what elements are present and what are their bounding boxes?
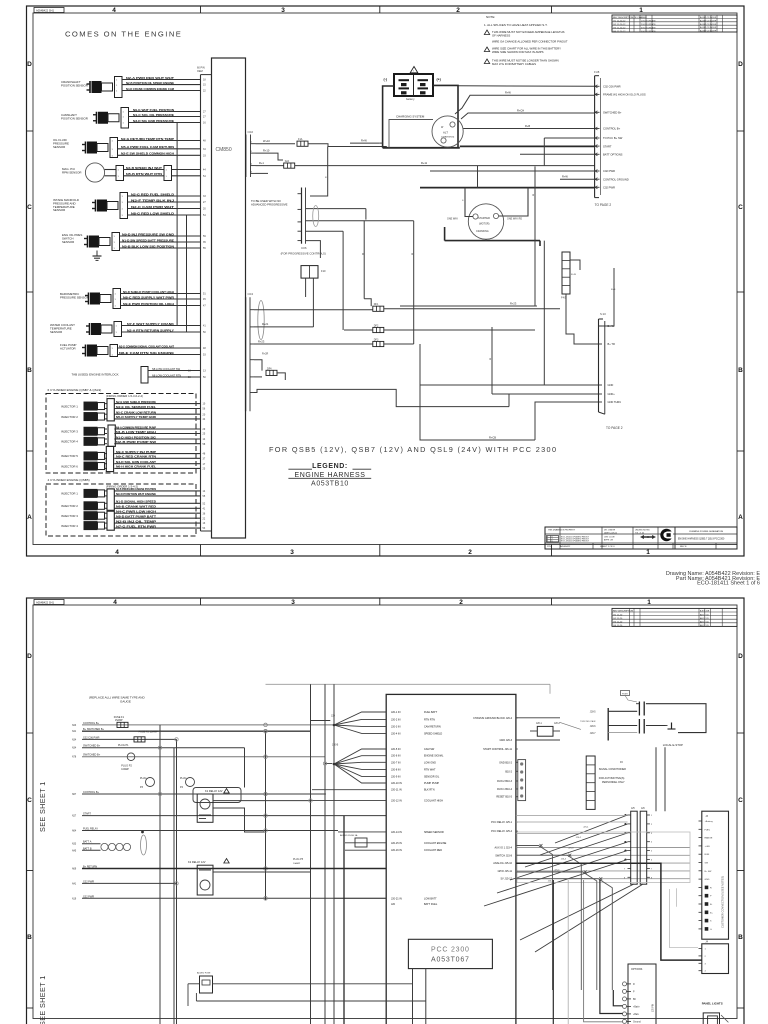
svg-text:R: R (412, 253, 414, 256)
svg-text:(FIRING ORDER 1-5-3-6-2-4): (FIRING ORDER 1-5-3-6-2-4) (106, 394, 143, 398)
svg-text:C04: C04 (248, 292, 254, 296)
wire oil fluid pin 1 (118, 140, 201, 142)
svg-text:AB 12 CD: AB 12 CD (700, 624, 709, 627)
wire fuel pump pin 1 (118, 347, 201, 349)
svg-text:BATT OPTIONS: BATT OPTIONS (603, 153, 623, 157)
svg-text:3: 3 (281, 7, 285, 14)
feeder wires down (534, 166, 536, 306)
svg-text:(CHARGING): (CHARGING) (441, 135, 455, 138)
svg-text:AB 12 CD: AB 12 CD (700, 613, 709, 616)
left bottom fuse box (200, 976, 213, 993)
svg-text:N5-B RTN WHT RTN: N5-B RTN WHT RTN (126, 172, 163, 176)
svg-text:R+W: R+W (505, 91, 511, 95)
svg-text:(FOR PROGRESSIVE CONTROLS): (FOR PROGRESSIVE CONTROLS) (281, 252, 326, 256)
wire crankshaft pin 1 (122, 79, 201, 81)
svg-text:E3 11-20: E3 11-20 (614, 622, 623, 624)
svg-text:A053T067: A053T067 (431, 957, 470, 964)
svg-text:INJECTOR 5: INJECTOR 5 (61, 454, 78, 458)
diagonal fan wires to J25/J26 (555, 815, 628, 843)
svg-text:3: 3 (290, 549, 294, 556)
svg-text:3: 3 (291, 599, 295, 606)
bus pin c02 c06 pwr (595, 85, 600, 87)
starter ground wire (445, 240, 540, 242)
svg-text:1: 1 (639, 7, 643, 14)
push label (621, 691, 630, 696)
svg-text:N5-C CRANK LOW RETURN: N5-C CRANK LOW RETURN (116, 411, 157, 415)
svg-text:N2-E GND SHIELD PRESSURE: N2-E GND SHIELD PRESSURE (116, 400, 156, 404)
svg-text:4 CYLINDER ENGINE (QSB5): 4 CYLINDER ENGINE (QSB5) (48, 478, 90, 482)
alternator (432, 116, 463, 147)
wire injector 4 return (105, 527, 108, 529)
svg-text:SENSOR: SENSOR (53, 145, 65, 149)
svg-text:GND J26-3: GND J26-3 (499, 739, 512, 742)
svg-text:PRESSURE SENSOR: PRESSURE SENSOR (60, 295, 89, 299)
svg-text:ENGINE HARNESS: ENGINE HARNESS (294, 472, 365, 479)
svg-text:J20: J20 (331, 715, 336, 718)
svg-text:TO PAGE 2: TO PAGE 2 (606, 426, 623, 430)
svg-text:N2-B PWR PUMP SW: N2-B PWR PUMP SW (116, 440, 156, 444)
svg-text:J35 PIN: J35 PIN (653, 1003, 655, 1012)
battery positive wire (433, 85, 458, 147)
wire injector 1 supply (105, 403, 108, 405)
svg-text:A1 B2 C3 D4 EF: A1 B2 C3 D4 EF (700, 16, 717, 19)
twin connector bars J25 J26 (631, 811, 638, 884)
svg-text:N2-G RETURN TEMP RTN TEMP: N2-G RETURN TEMP RTN TEMP (121, 137, 174, 141)
riser to C06 pin1 (310, 147, 328, 197)
e-stop switch 1 (638, 702, 640, 716)
svg-text:PLUG P2: PLUG P2 (121, 765, 132, 768)
svg-text:C: C (738, 204, 743, 211)
svg-text:REV E: REV E (680, 546, 687, 548)
wire C02-1 with fuse (256, 143, 296, 145)
svg-text:ADDED FUSE 5A: ADDED FUSE 5A (340, 834, 358, 837)
svg-text:AUX IO 1 J15-4: AUX IO 1 J15-4 (494, 847, 512, 850)
options block (628, 964, 656, 1024)
svg-text:N9-G WHT FUEL POSITION: N9-G WHT FUEL POSITION (133, 108, 175, 112)
bus pin switched b+ (595, 111, 600, 113)
wire injector 6 supply (105, 463, 108, 465)
svg-text:N9-A COMMON PRESSURE PUMP: N9-A COMMON PRESSURE PUMP (116, 425, 156, 429)
svg-text:B: B (738, 934, 743, 941)
svg-text:TO PCC B+ SW: TO PCC B+ SW (603, 136, 623, 140)
wire water coolant pin 2 (122, 331, 201, 333)
terminating resistor J28 (537, 726, 553, 736)
bus pin c02 pwr (595, 186, 600, 188)
svg-text:N27: N27 (72, 816, 77, 818)
wire injector 3 return (105, 517, 108, 519)
svg-text:A1 B2 C3 D4 EF: A1 B2 C3 D4 EF (700, 19, 717, 22)
page2 central PCC block (386, 694, 516, 1024)
svg-text:R+23: R+23 (258, 339, 265, 343)
customer connections block (702, 811, 729, 939)
svg-text:START: START (603, 144, 612, 148)
svg-text:ECO-181411 Sheet 1 of 6: ECO-181411 Sheet 1 of 6 (697, 581, 760, 587)
svg-text:N3-D SIG GND PRESSURE: N3-D SIG GND PRESSURE (133, 119, 174, 123)
wire injector 2 return (105, 507, 108, 509)
hookup bubbles on bus (264, 723, 268, 727)
svg-text:N9-D POSITION WHT ENGINE: N9-D POSITION WHT ENGINE (116, 492, 156, 496)
svg-text:N1-D HIGH POSITION SIG: N1-D HIGH POSITION SIG (116, 435, 157, 439)
arrow to resistor (560, 722, 581, 729)
svg-text:N2-C CAM PWR WHT: N2-C CAM PWR WHT (131, 205, 174, 209)
svg-text:2: 2 (456, 7, 460, 14)
svg-text:RUN 2 B10-3: RUN 2 B10-3 (497, 780, 512, 783)
svg-text:J28-5: J28-5 (590, 712, 596, 714)
svg-text:R+B: R+B (611, 289, 616, 291)
svg-text:R+CH: R+CH (517, 108, 524, 112)
svg-text:PLUG: PLUG (180, 777, 187, 780)
svg-text:DF2: DF2 (374, 324, 379, 327)
svg-text:Ground: Ground (633, 1020, 641, 1023)
svg-text:R: R (533, 194, 535, 197)
wire C04-6 long bottom (254, 389, 509, 406)
wire injector 3 return (105, 433, 108, 435)
border frame (27, 6, 745, 556)
wire C02-2 (256, 153, 284, 160)
svg-text:J26-4: J26-4 (561, 859, 567, 861)
svg-text:DF1: DF1 (374, 303, 379, 306)
svg-text:1 ECO UPDATE: 1 ECO UPDATE (641, 20, 656, 23)
svg-text:E3 11-20-12: E3 11-20-12 (614, 27, 627, 29)
svg-text:N2-B POSITION OIL SPEED ENGINE: N2-B POSITION OIL SPEED ENGINE (126, 81, 174, 85)
wire C04-2 (254, 326, 313, 328)
svg-text:CRANKING: CRANKING (476, 230, 489, 233)
svg-text:POSITION SENSOR: POSITION SENSOR (61, 83, 88, 87)
wires C06 (306, 208, 366, 210)
e-stop bus bar (607, 708, 609, 741)
svg-text:INJECTOR 1: INJECTOR 1 (61, 492, 78, 496)
starter motor (468, 204, 503, 239)
svg-text:WIRE SIZE SHOWN FOR MAX IN AMP: WIRE SIZE SHOWN FOR MAX IN AMPS (492, 50, 544, 54)
svg-text:APPR: JW: APPR: JW (604, 539, 613, 542)
vertical feeders (363, 221, 365, 299)
wire eng oil pres pin 1 (120, 235, 201, 237)
svg-text:INJECTOR 6: INJECTOR 6 (61, 464, 78, 468)
wire C04-3 (254, 343, 300, 345)
connector C06 (301, 188, 303, 244)
svg-text:N6-D SHIELD PUMP COOLANT HIGH: N6-D SHIELD PUMP COOLANT HIGH (123, 290, 175, 294)
svg-text:W+10: W+10 (263, 139, 270, 143)
svg-text:4: 4 (113, 599, 117, 606)
svg-text:J28-7: J28-7 (590, 733, 596, 735)
svg-text:STARTER: STARTER (478, 216, 490, 220)
wire crankshaft pin 2 (122, 84, 201, 86)
svg-text:A054B422 SH1: A054B422 SH1 (36, 8, 54, 12)
svg-text:OPTIONS: OPTIONS (631, 968, 643, 971)
wires from estop down (655, 747, 657, 811)
svg-text:C02 PWR: C02 PWR (603, 186, 615, 190)
battery negative wire (383, 86, 394, 148)
svg-text:SENSOR: SENSOR (62, 240, 74, 244)
svg-text:F2A: F2A (285, 160, 290, 163)
svg-text:N8-C RED SUPPLY WHT PWR: N8-C RED SUPPLY WHT PWR (123, 295, 175, 299)
svg-text:B+ W: B+ W (608, 324, 615, 328)
wire injector 1 return (105, 495, 108, 497)
svg-text:N64: N64 (72, 831, 77, 833)
svg-text:ADDED FUSE: ADDED FUSE (197, 972, 211, 975)
svg-text:B-: B- (710, 904, 712, 906)
fuse F2 (134, 737, 145, 742)
svg-text:PLUG P1: PLUG P1 (118, 744, 129, 747)
svg-text:D: D (738, 61, 743, 68)
svg-text:1: 1 (647, 599, 651, 606)
svg-text:4: 4 (115, 549, 119, 556)
svg-text:ALT: ALT (443, 131, 448, 135)
svg-text:(MOTOR): (MOTOR) (479, 223, 490, 226)
svg-text:N8 LOW COOLANT SW: N8 LOW COOLANT SW (152, 367, 181, 371)
wire camshaft pin 1 (129, 111, 201, 113)
wire to S10 row2 (400, 305, 535, 307)
svg-text:+Battery: +Battery (705, 820, 714, 823)
wire intake manifold pin 1 (128, 195, 201, 197)
svg-text:N9-C RED CRANK RTN: N9-C RED CRANK RTN (116, 455, 157, 459)
wire injector 4 supply (105, 522, 108, 524)
bus pin control b+ (595, 128, 600, 130)
svg-text:N19: N19 (72, 898, 77, 900)
wire intake manifold pin 2 (128, 201, 201, 203)
plug P3 (146, 778, 155, 787)
svg-text:6 CYLINDER ENGINE (QSB7 & QSL9: 6 CYLINDER ENGINE (QSB7 & QSL9) (48, 388, 102, 392)
svg-text:N8-D BATT PUMP BATT: N8-D BATT PUMP BATT (116, 515, 156, 519)
svg-text:SEE SHEET 1: SEE SHEET 1 (38, 975, 47, 1024)
wire camshaft pin 3 (129, 122, 201, 124)
relay k2 wiring (213, 871, 311, 873)
bus pin start (595, 145, 600, 147)
svg-text:E1 11-20-12: E1 11-20-12 (614, 21, 627, 23)
svg-text:TO PAGE 2: TO PAGE 2 (595, 203, 612, 207)
svg-text:GAUGE: GAUGE (120, 699, 131, 703)
svg-text:GND+: GND+ (608, 392, 616, 396)
svg-text:J25-1: J25-1 (583, 827, 589, 829)
svg-text:CONTROL GROUND: CONTROL GROUND (603, 177, 629, 181)
connector bubbles (101, 843, 108, 850)
wire water coolant pin 1 (122, 325, 201, 327)
wire barometric pin 1 (121, 293, 201, 295)
svg-text:WIRE GA CHANGE ALLOWED PER CON: WIRE GA CHANGE ALLOWED PER CONNECTOR PIN… (492, 40, 568, 44)
svg-text:DR: J.SMITH: DR: J.SMITH (604, 530, 616, 532)
svg-text:J28-6: J28-6 (590, 726, 596, 728)
svg-text:N8-E CAM RTN SIG ENGINE: N8-E CAM RTN SIG ENGINE (119, 351, 174, 355)
svg-text:E1 11-20: E1 11-20 (614, 614, 623, 616)
signal conditioner strip (586, 756, 595, 809)
title block (545, 527, 737, 549)
svg-text:SEE SHEET 1: SEE SHEET 1 (38, 781, 47, 832)
bus pin to pcc b+ sw (595, 137, 600, 139)
wire intake manifold pin 3 (128, 208, 201, 210)
svg-text:AB 12 CD: AB 12 CD (700, 617, 709, 620)
svg-text:D: D (27, 61, 32, 68)
svg-text:C02 PWR: C02 PWR (603, 169, 615, 173)
svg-text:PUSH: PUSH (622, 693, 628, 695)
svg-text:C02 C06 PWR: C02 C06 PWR (603, 85, 621, 89)
svg-text:N1-D SIGNAL HIGH SPEED: N1-D SIGNAL HIGH SPEED (116, 500, 157, 504)
svg-text:F10: F10 (321, 269, 326, 273)
svg-text:R+21: R+21 (262, 322, 269, 326)
svg-text:TOL .X .05: TOL .X .05 (635, 532, 644, 534)
svg-text:R: R (490, 358, 492, 361)
svg-text:N2-B INJ OIL TEMP: N2-B INJ OIL TEMP (116, 519, 156, 523)
svg-text:ANALOG J15-10: ANALOG J15-10 (493, 862, 512, 865)
svg-text:6: 6 (552, 541, 553, 543)
svg-text:FU8: FU8 (594, 70, 600, 74)
svg-text:MAX LTG FOR BATTERY CABLES: MAX LTG FOR BATTERY CABLES (492, 62, 536, 66)
svg-text:N8 LOW COOLANT RTN: N8 LOW COOLANT RTN (152, 373, 181, 377)
svg-text:AB 12 CD: AB 12 CD (700, 621, 709, 624)
svg-text:N33: N33 (72, 844, 77, 846)
svg-text:A1 B2 C3 D4 EF: A1 B2 C3 D4 EF (700, 26, 717, 29)
svg-text:C: C (738, 797, 743, 804)
wire intake manifold pin 4 (128, 214, 201, 216)
svg-text:1. ALL SPLICES TO HAVE HEAT AP: 1. ALL SPLICES TO HAVE HEAT APPLIED S.T. (484, 23, 548, 27)
fuse F1 (117, 722, 128, 727)
connector F45 (562, 252, 570, 294)
svg-text:CHARGING SYSTEM: CHARGING SYSTEM (396, 115, 425, 119)
svg-text:PLUG: PLUG (140, 777, 147, 780)
svg-text:INJECTOR 2: INJECTOR 2 (61, 415, 78, 419)
border frame (27, 598, 745, 1024)
wire injector 1 supply (105, 490, 108, 492)
wire fuel pump pin 2 (118, 354, 201, 356)
svg-text:J25-5: J25-5 (554, 869, 560, 871)
svg-text:N3-G COMMON SIGNAL COOLANT COO: N3-G COMMON SIGNAL COOLANT COOLANT (119, 344, 174, 348)
svg-text:ECO-181411 UPDATED PINOUT: ECO-181411 UPDATED PINOUT (561, 540, 590, 543)
wire injector 4 return (105, 443, 108, 445)
svg-text:REV DESCRIPTION OF CHANGE: REV DESCRIPTION OF CHANGE (613, 16, 647, 19)
top boundary wire (266, 683, 551, 685)
svg-text:B: B (27, 367, 32, 374)
svg-text:+Batt+: +Batt+ (633, 1005, 640, 1008)
svg-text:N23: N23 (72, 725, 77, 727)
wires from fuse box to PCC bottom (213, 983, 413, 985)
svg-text:GND THRU: GND THRU (608, 400, 622, 404)
svg-text:R+CB: R+CB (489, 435, 496, 439)
page2 vertical buses (159, 725, 161, 1024)
svg-text:FOR QSB5 (12V), QSB7 (12V) AND: FOR QSB5 (12V), QSB7 (12V) AND QSL9 (24V… (269, 445, 557, 454)
wire injector 3 supply (105, 428, 108, 430)
svg-text:PLUG P5: PLUG P5 (293, 858, 304, 861)
wire injector 5 return (105, 457, 108, 459)
warning triangle (410, 67, 418, 73)
wire C04-5 (254, 376, 262, 378)
svg-text:N1-D SW SPEED BATT PRESSURE: N1-D SW SPEED BATT PRESSURE (122, 238, 174, 242)
svg-text:N8-G RED LOW SHIELD: N8-G RED LOW SHIELD (131, 211, 175, 215)
svg-text:N4-C PWR LOW HIGH: N4-C PWR LOW HIGH (116, 510, 157, 514)
svg-text:A B C DE: A B C DE (700, 610, 710, 613)
starter top feed wire (420, 187, 595, 189)
svg-text:TWISTED PAIR: TWISTED PAIR (580, 720, 596, 723)
svg-text:N6-H HIGH CRANK FUEL: N6-H HIGH CRANK FUEL (116, 465, 156, 469)
svg-text:N5-D SUPPLY TEMP GND: N5-D SUPPLY TEMP GND (116, 415, 157, 419)
svg-text:CUMMINS POWER GENERATION: CUMMINS POWER GENERATION (689, 530, 724, 533)
svg-text:COMES ON THE ENGINE: COMES ON THE ENGINE (65, 30, 182, 39)
wire injector 4 supply (105, 438, 108, 440)
page2 long wires bottom (343, 816, 345, 1024)
relay k1 wiring (213, 800, 311, 802)
svg-text:+LED: +LED (705, 846, 711, 848)
svg-text:FUSE F2 15AMP: FUSE F2 15AMP (139, 731, 159, 734)
wire eng oil pres pin 3 (120, 247, 201, 249)
wires below F10 (305, 278, 307, 297)
revision table page 2 (612, 608, 737, 626)
PCC fan wires mid (334, 749, 386, 764)
svg-text:PERSONNEL ONLY: PERSONNEL ONLY (602, 781, 625, 784)
svg-text:CM850: CM850 (216, 147, 232, 153)
svg-text:E4 11-20: E4 11-20 (614, 625, 623, 627)
sensor wire bundle verticals (176, 123, 178, 326)
svg-text:RPM SENSOR: RPM SENSOR (62, 170, 81, 174)
svg-text:N7-G FUEL RTN PWR: N7-G FUEL RTN PWR (116, 524, 157, 528)
pcc 2300 label box (408, 939, 492, 968)
svg-text:LOCAL E-STOP: LOCAL E-STOP (663, 743, 683, 747)
svg-text:UNLESS NOTED: UNLESS NOTED (635, 530, 650, 532)
svg-text:OEM: OEM (197, 70, 203, 73)
svg-text:ADVANCED PROGRESSIVE: ADVANCED PROGRESSIVE (251, 203, 288, 207)
svg-text:A054B422: A054B422 (560, 545, 571, 548)
svg-text:J26-2: J26-2 (576, 837, 582, 839)
svg-text:N34: N34 (72, 739, 77, 741)
thick B+ run right side (516, 863, 702, 960)
e-stop switch 2 (638, 719, 640, 734)
grey wires to J25 J26 bars (516, 815, 628, 817)
svg-text:N67: N67 (72, 794, 77, 796)
svg-text:ENGINE HARNESS QSB5,7 QSL9 PCC: ENGINE HARNESS QSB5,7 QSL9 PCC2300 (678, 538, 725, 541)
svg-text:10AMP: 10AMP (121, 768, 129, 771)
svg-text:SIGNAL CONDITIONER: SIGNAL CONDITIONER (599, 768, 626, 771)
bus pin frame w1 high on glo plugs (595, 93, 600, 95)
svg-text:PCC RELAY J25-4: PCC RELAY J25-4 (491, 830, 512, 833)
svg-text:PCC RELAY J25-1: PCC RELAY J25-1 (491, 821, 512, 824)
svg-text:INJECTOR 1: INJECTOR 1 (61, 404, 78, 408)
svg-text:N5-B BLK LOW SIG POSITION: N5-B BLK LOW SIG POSITION (122, 244, 175, 248)
wire injector 6 return (105, 467, 108, 469)
revision table (612, 15, 737, 32)
svg-text:R+11: R+11 (421, 161, 428, 165)
J15 wire runs to options feeders (516, 846, 553, 991)
inline fuses DF row (373, 306, 384, 311)
plug P4 (186, 778, 195, 787)
svg-text:CHK: J.DOE: CHK: J.DOE (604, 537, 615, 539)
svg-text:OF HARNESS: OF HARNESS (492, 33, 510, 37)
extra bus bubbles (158, 746, 161, 749)
wire eng oil pres pin 2 (120, 241, 201, 243)
svg-text:N9-E PWR POSITION OIL HIGH: N9-E PWR POSITION OIL HIGH (123, 302, 175, 306)
wire oil fluid pin 2 (118, 148, 201, 150)
svg-text:E2 11-20: E2 11-20 (614, 618, 623, 620)
options block feeders (613, 990, 622, 1006)
B10 strip wires (516, 761, 518, 763)
switched B+ drop to relay K1 (244, 748, 246, 788)
svg-text:B: B (738, 367, 743, 374)
svg-text:N69: N69 (72, 869, 77, 871)
svg-text:S:10: S:10 (600, 312, 606, 316)
svg-text:SHEET 1 OF 6: SHEET 1 OF 6 (600, 546, 615, 548)
svg-text:DATE 12-08-12: DATE 12-08-12 (604, 531, 617, 534)
svg-text:B: B (27, 934, 32, 941)
bus pin batt options (595, 153, 600, 155)
svg-text:INJECTOR 2: INJECTOR 2 (61, 504, 78, 508)
svg-text:1: 1 (646, 549, 650, 556)
svg-text:N4-D SOL GRN COOLANT: N4-D SOL GRN COOLANT (116, 460, 156, 464)
alternator output wires (455, 95, 595, 114)
svg-text:E4 11-20-12: E4 11-20-12 (614, 31, 627, 33)
wire injector 2 supply (105, 413, 108, 415)
svg-text:N2-E SW SHIELD COMMON HIGH: N2-E SW SHIELD COMMON HIGH (121, 152, 175, 156)
svg-text:C06: C06 (301, 246, 307, 250)
battery feed to bus (458, 85, 595, 88)
svg-text:C: C (27, 797, 32, 804)
svg-text:4: 4 (112, 7, 116, 14)
svg-text:R+2R: R+2R (262, 353, 268, 356)
